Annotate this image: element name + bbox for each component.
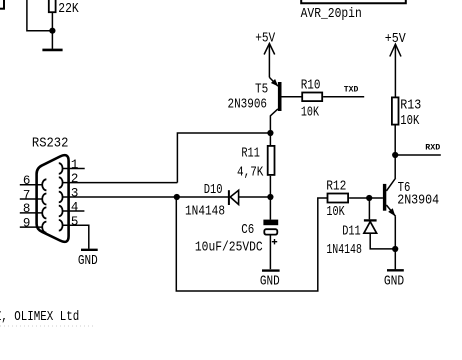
junction T6 emitter node <box>392 246 398 252</box>
transistor T5 2N3906 <box>269 77 302 133</box>
resistor R13 <box>392 97 399 124</box>
svg-text:9: 9 <box>23 216 31 230</box>
svg-text:GND: GND <box>384 274 404 290</box>
svg-text:RS232: RS232 <box>32 135 69 151</box>
ground (top-left) <box>42 49 62 52</box>
svg-text:1: 1 <box>71 158 79 172</box>
svg-text:R10: R10 <box>301 77 321 93</box>
svg-text:2: 2 <box>71 172 79 186</box>
svg-text:1N4148: 1N4148 <box>326 242 362 258</box>
pin 2 <box>59 172 178 188</box>
faint dotted remnant <box>0 325 96 327</box>
svg-text:R12: R12 <box>326 178 346 194</box>
svg-text:8: 8 <box>23 202 31 216</box>
svg-text:TXD: TXD <box>344 86 359 95</box>
capacitor C6 10uF/25VDC <box>263 220 278 270</box>
svg-text:R11: R11 <box>241 146 260 162</box>
wire top-left <box>27 0 53 31</box>
svg-text:2N3904: 2N3904 <box>397 193 439 209</box>
svg-text:D10: D10 <box>204 182 223 198</box>
pin 7 <box>20 188 47 204</box>
svg-text:10uF/25VDC: 10uF/25VDC <box>195 239 263 255</box>
junction RXD node <box>392 152 398 158</box>
pin 9 <box>20 216 47 232</box>
svg-text:6: 6 <box>23 174 31 188</box>
svg-text:5: 5 <box>71 215 79 229</box>
svg-text:AVR_20pin: AVR_20pin <box>301 6 362 22</box>
svg-text:4,7K: 4,7K <box>237 165 264 181</box>
wire bottom detour rail <box>176 197 327 291</box>
ground (pin5) <box>81 249 98 251</box>
pin 6 <box>20 174 47 190</box>
junction top-left <box>49 28 55 34</box>
pin 5 <box>59 215 89 249</box>
pin 4 <box>59 201 85 217</box>
pin 3 <box>59 186 79 202</box>
ground (T6) <box>387 269 404 271</box>
junction pin3 detour <box>174 194 180 200</box>
svg-text:10K: 10K <box>326 204 345 220</box>
svg-text:C6: C6 <box>241 222 254 238</box>
wire 22K to ground <box>51 13 53 49</box>
svg-text:22K: 22K <box>58 1 79 17</box>
svg-text:GND: GND <box>78 253 98 269</box>
ground (C6) <box>262 269 280 271</box>
svg-text:1N4148: 1N4148 <box>185 203 225 219</box>
svg-text:RXD: RXD <box>425 143 440 152</box>
svg-text:+5V: +5V <box>255 30 275 46</box>
wire collector to R11 <box>269 133 271 145</box>
svg-text:10K: 10K <box>400 113 419 129</box>
junction R11/C6 node <box>267 194 273 200</box>
svg-text:GND: GND <box>260 273 280 289</box>
connector RS232 DB9 body <box>37 155 69 242</box>
diode D11 1N4148 <box>364 198 395 249</box>
wire RXD <box>395 154 441 156</box>
wire R12 to T6 base <box>349 197 383 199</box>
wire pin2 riser to T5 collector <box>177 133 270 183</box>
svg-text:10K: 10K <box>301 105 320 121</box>
wire RXD node to T6 collector <box>394 155 396 178</box>
svg-text:3: 3 <box>71 186 79 200</box>
svg-text:Z, OLIMEX Ltd: Z, OLIMEX Ltd <box>0 309 79 325</box>
junction D11 node <box>366 195 372 201</box>
svg-text:7: 7 <box>23 188 31 202</box>
svg-text:T5: T5 <box>255 81 268 97</box>
resistor R10 <box>302 93 322 102</box>
pin 1 <box>59 158 85 174</box>
wire pin3 / D10 cathode <box>62 196 229 198</box>
IC box AVR_20pin (partial) <box>301 0 406 3</box>
wire R13 to RXD node <box>394 126 396 156</box>
svg-text:R13: R13 <box>400 98 421 114</box>
junction T5 collector <box>267 130 273 136</box>
wire R11 to node <box>269 176 271 197</box>
resistor R12 <box>328 194 349 203</box>
resistor 22K (partial box) <box>49 0 56 12</box>
svg-text:2N3906: 2N3906 <box>228 96 268 112</box>
transistor T6 2N3904 <box>383 178 396 269</box>
svg-text:4: 4 <box>71 201 79 215</box>
resistor R11 <box>268 146 275 175</box>
resistor (partial, left edge) <box>0 0 4 9</box>
wire node to C6 <box>269 197 271 220</box>
pin 8 <box>20 202 47 218</box>
diode D10 1N4148 <box>229 190 271 205</box>
svg-text:D11: D11 <box>342 224 361 240</box>
wire TXD <box>323 96 364 98</box>
